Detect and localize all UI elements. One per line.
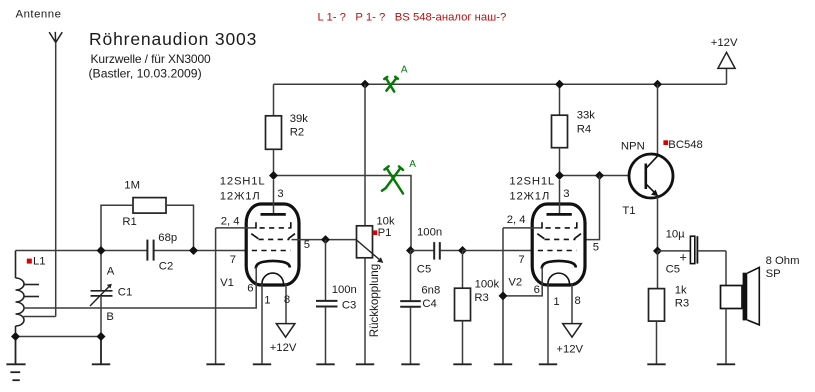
ground (V2 grid line) [494,363,512,365]
svg-text:A: A [401,65,408,76]
wire main top-left horizontal (L1 top to tube V1 grid) [16,250,148,252]
C1 labels A / B / C1 [106,266,132,324]
wire V1 pin 8 to +12V [285,284,287,324]
svg-text:1: 1 [264,295,270,307]
svg-text:C5: C5 [666,264,680,276]
svg-text:T1: T1 [622,205,635,217]
svg-text:A: A [409,159,416,170]
svg-text:+12V: +12V [711,37,738,49]
svg-text:+: + [680,251,687,265]
ground (V2 pin1) [539,363,557,365]
wire R1 right leg [166,205,194,250]
C5 labels [417,227,442,276]
node junction top rail / T1 collector [653,80,662,89]
speaker SP [721,267,760,325]
V2 grid3 dashes (pin 7) [538,250,577,252]
capacitor C2 [147,240,153,261]
svg-text:R3: R3 [675,298,689,310]
C4 labels [421,285,440,310]
green X mark on anode wire [382,166,403,193]
L1 red marker and label [27,256,46,268]
svg-text:L1: L1 [33,256,46,268]
ground (speaker) [717,363,735,365]
V1 anode plate [261,213,286,216]
svg-text:100n: 100n [332,284,357,296]
svg-text:6n8: 6n8 [421,285,440,297]
tube V1 envelope [246,204,299,285]
wire antenna vertical down to coil tap [55,43,57,317]
svg-text:7: 7 [230,254,236,266]
potentiometer P1 [357,226,373,258]
V2 heater dome [548,273,570,284]
ground (P1) [356,363,374,365]
V1 grid 2,4 (ticks and dashes) [256,222,291,228]
wire T1 emitter down [657,197,659,251]
svg-text:12SH1L: 12SH1L [220,176,266,188]
svg-text:C2: C2 [159,261,173,273]
node junction R4 / V2 pin3 [555,171,564,180]
SP labels [766,255,800,280]
svg-text:R4: R4 [577,124,591,136]
R3 1k labels [675,285,689,310]
ground (V1 grid 2,4) [206,363,224,365]
green X mark on +12V rail [384,77,398,92]
node junction anode-wire corner / C5 / C4 [406,246,415,255]
capacitor C4 (6n8) [410,251,412,301]
ground (R3 1k) [647,363,665,365]
wire V2 pin 1 to ground [547,284,549,364]
resistor R3 (100k) [462,251,464,289]
V2 screen grid [537,234,581,240]
svg-text:R3: R3 [474,292,488,304]
node junction top rail / R4 [555,80,564,89]
svg-text:2, 4: 2, 4 [221,216,240,228]
svg-text:8 Ohm: 8 Ohm [766,255,800,267]
node junction emitter / C5 / R3 [653,246,662,255]
svg-text:C1: C1 [118,286,132,298]
P1 labels [376,215,395,238]
svg-text:P1: P1 [378,227,392,239]
node junction V1 pin5 / C3 [321,235,330,244]
ground (C4) [401,363,419,365]
wire V1 cathode (pin 6) to coil tap [24,267,257,308]
svg-text:33k: 33k [577,110,596,122]
svg-text:A: A [107,266,115,278]
svg-text:Röhrenaudion 3003: Röhrenaudion 3003 [89,29,257,49]
V2 anode plate [547,213,572,216]
ground (C1 / bottom wire) [92,337,110,365]
wire L1 bottom to C1 bottom [16,336,102,338]
wire R1 left leg [101,205,133,250]
V1 screen grid (dashes with end ticks) [251,234,295,240]
wire anode V1 to C5 node [274,176,412,251]
svg-text:7: 7 [518,254,524,266]
T1 labels [621,139,703,217]
svg-text:V2: V2 [508,277,522,289]
node junction C1 bottom [97,332,106,341]
svg-text:1M: 1M [124,179,140,191]
svg-text:+12V: +12V [556,343,583,355]
svg-text:Rückkopplung: Rückkopplung [368,264,381,337]
BC548 red marker [663,140,668,145]
node junction R2 bottom / V1 pin3 [269,171,278,180]
C5 10µ labels [666,229,687,276]
tube V2 envelope [532,204,585,285]
wire speaker to ground [725,309,727,364]
svg-text:(Bastler, 10.03.2009): (Bastler, 10.03.2009) [89,67,202,81]
svg-text:C5: C5 [417,263,431,275]
+12V symbol (V1 heater) [276,324,295,338]
wire V2 cathode (pin 6) to grid ground line [503,267,542,296]
capacitor C3 [325,240,327,301]
svg-text:12SH1L: 12SH1L [509,176,555,188]
svg-text:2, 4: 2, 4 [507,214,526,226]
svg-text:10k: 10k [376,215,395,227]
ground (main, left) [6,337,25,381]
wire rail to P1 top [364,84,366,226]
resistor R1 [133,198,166,214]
C3 labels [332,284,357,311]
V1 heater dome [262,273,284,284]
capacitor C5 (10µ electrolytic) [658,250,691,252]
svg-text:R1: R1 [122,216,136,228]
antenna symbol [49,32,62,43]
svg-text:R2: R2 [290,127,304,139]
svg-text:100n: 100n [417,227,442,239]
svg-text:Kurzwelle / für XN3000: Kurzwelle / für XN3000 [91,52,212,66]
tube V1 labels 12SH1L / 12Ж1Л [220,176,266,203]
svg-text:39k: 39k [290,113,309,125]
svg-text:3: 3 [563,188,569,200]
svg-text:6: 6 [247,283,253,295]
P1 red marker [373,230,378,235]
wire T1 collector [657,84,659,155]
wire V2 pin 8 to +12V [571,284,573,324]
+12V supply symbol top right [711,37,738,84]
title block text [89,29,258,81]
svg-text:L 1- ? P 1- ? BS 548-анало: L 1- ? P 1- ? BS 548-аналог наш-? [318,12,507,24]
V1 cathode [256,261,290,269]
V1 grid3 dashes (pin 7) [252,250,291,252]
svg-text:BC548: BC548 [668,139,703,151]
svg-text:1: 1 [553,296,559,308]
svg-text:8: 8 [284,294,290,306]
svg-text:NPN: NPN [621,141,645,153]
wire V1 grid2,4 down to ground [215,228,217,364]
svg-text:12Ж1Л: 12Ж1Л [509,191,550,203]
C2 labels [158,232,177,272]
R3 100k labels [474,278,499,304]
resistor R4 (33k) [559,84,561,115]
resistor R3 (1k) [657,251,659,289]
svg-text:3: 3 [277,188,283,200]
svg-text:5: 5 [593,242,599,254]
V2 grid 2,4 (ticks and dashes) [542,222,577,228]
wire antenna tap horizontal [24,316,56,318]
svg-text:10µ: 10µ [666,229,686,241]
svg-text:5: 5 [304,239,310,251]
R4 labels [577,110,596,136]
V2 pin 3 lead [559,180,561,214]
inductor L1 [16,251,40,337]
svg-text:12Ж1Л: 12Ж1Л [220,191,261,203]
node junction C2-right/R1 [189,246,198,255]
svg-text:68p: 68p [158,232,177,244]
transistor T1 [629,154,673,198]
node junction C5 / R3(100k) / V2 grid [458,246,467,255]
wire V2 grid2,4 down to ground [502,228,504,364]
node junction top rail / P1 [361,80,370,89]
wire to V2 grid3 [463,250,538,252]
svg-text:8: 8 [575,295,581,307]
node junction L1 bottom [11,332,20,341]
capacitor C1 (variable) [90,251,113,337]
svg-text:1k: 1k [675,285,687,297]
svg-text:+12V: +12V [270,342,297,354]
node junction V2 grid line / cathode wire [499,291,508,300]
wire V2 pin5 riser [578,176,600,240]
resistor R2 [273,84,275,116]
wire speaker feed down [725,251,727,286]
wire V2 grid 2,4 entry [503,227,542,229]
V2 cathode [542,261,576,269]
svg-text:V1: V1 [220,277,234,289]
svg-text:C4: C4 [422,298,436,310]
V1 pin 3 lead [273,180,275,214]
tube V2 labels 12SH1L / 12Ж1Л [509,176,555,203]
svg-text:SP: SP [766,268,781,280]
node junction C2-left/R1/C1 [97,246,106,255]
ground (V1 pin1) [253,363,271,365]
ground (C3) [316,363,334,365]
svg-text:B: B [106,311,114,323]
svg-text:6: 6 [534,284,540,296]
wire R4 bottom to T1 base [560,175,630,177]
wire +12V top rail [274,83,727,85]
capacitor C5 (100n coupling) [411,250,434,252]
ground (R3 100k) [453,363,471,365]
svg-text:100k: 100k [475,278,500,290]
node junction base wire / V2 pin5 riser [595,171,604,180]
wire V1 pin 1 to ground [261,284,263,364]
wire V1 pin5 exit to P1 [292,239,357,241]
R1 labels [122,179,140,228]
svg-text:Antenne: Antenne [16,9,62,21]
+12V symbol (V2 heater) [563,324,582,338]
svg-text:C3: C3 [342,299,356,311]
wire V1 grid 2,4 entry [216,227,256,229]
